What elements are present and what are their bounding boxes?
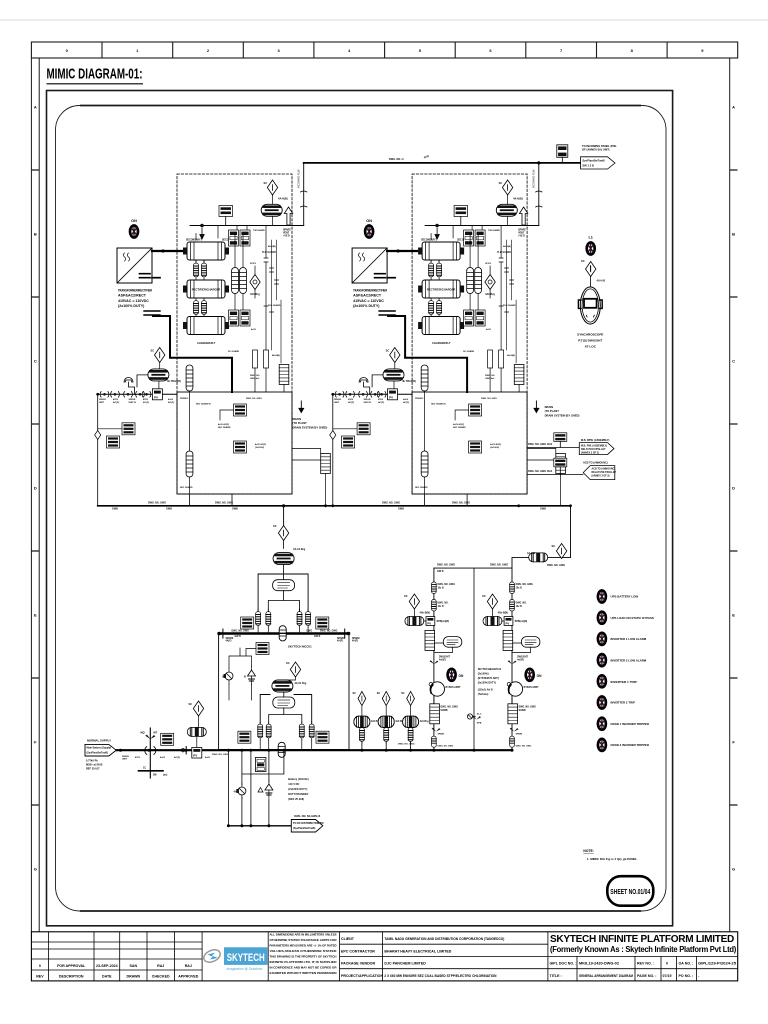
left band row ticks bbox=[31, 170, 39, 805]
right margin line bbox=[729, 58, 731, 932]
wire: riser to plant bus bbox=[303, 163, 305, 226]
svg-text:M.B. RPW. (ASSEMBLY): M.B. RPW. (ASSEMBLY) bbox=[581, 439, 610, 442]
bus1 left end cap bbox=[218, 629, 223, 638]
hatch box ups1 c bbox=[430, 704, 440, 724]
capacitor column chain1 b bbox=[266, 609, 271, 628]
earth bar bbox=[139, 770, 164, 772]
lamp ann1 bbox=[598, 591, 606, 603]
wire: 415V incomer top bus bbox=[304, 162, 581, 164]
capacitor pair dcf bbox=[360, 725, 365, 744]
svg-text:SW 1 2 B: SW 1 2 B bbox=[582, 163, 594, 167]
svg-text:SPB: SPB bbox=[477, 723, 482, 725]
svg-text:SPB(xx)(N): SPB(xx)(N) bbox=[437, 620, 450, 623]
svg-text:ALL DIMENSIONS ARE IN MILLIMET: ALL DIMENSIONS ARE IN MILLIMETERS UNLESS bbox=[270, 933, 337, 937]
label: inverter ups1 bbox=[446, 686, 462, 689]
suppressor capsule chain1 bbox=[273, 553, 294, 565]
svg-text:ASP&AC2/RECT: ASP&AC2/RECT bbox=[118, 294, 147, 298]
tie valve mark bbox=[472, 716, 481, 720]
wire: battery sub risers bbox=[228, 750, 284, 826]
wire: alarm line 1 bbox=[527, 446, 583, 448]
svg-text:OF (ANNEX-3A) UNIT;: OF (ANNEX-3A) UNIT; bbox=[582, 148, 610, 152]
breaker arc marks bbox=[145, 747, 156, 755]
node dots collector bbox=[227, 824, 271, 827]
svg-text:RAJ: RAJ bbox=[157, 964, 164, 968]
node dot top bus junction bbox=[537, 161, 540, 164]
suppressor capsule battery bbox=[187, 727, 206, 736]
svg-text:SWGR: SWGR bbox=[122, 756, 129, 758]
label: battery feeder micro bbox=[122, 754, 229, 761]
dc feeder group 1 bbox=[353, 691, 381, 750]
svg-text:DWG/SHT: DWG/SHT bbox=[439, 657, 450, 659]
rectifier/charger unit 1 bbox=[95, 163, 331, 506]
svg-text:(SysPlantSwTswB): (SysPlantSwTswB) bbox=[293, 827, 315, 830]
capacitor column chain2 c bbox=[299, 722, 304, 741]
wire: dcf capsule stubs bbox=[361, 706, 363, 728]
svg-text:SEC GUARD N: SEC GUARD N bbox=[196, 403, 211, 406]
wire: DC output thick L bbox=[144, 311, 160, 315]
svg-text:(110x1) Ah B: (110x1) Ah B bbox=[478, 689, 493, 692]
notes text block bbox=[270, 933, 338, 976]
valve tick ups1 low bbox=[432, 728, 441, 732]
label: ups1 micro bbox=[438, 734, 454, 748]
svg-text:DUTY/STANDBY: DUTY/STANDBY bbox=[288, 792, 308, 796]
narrow box N1 bbox=[253, 350, 258, 368]
svg-text:PV: PV bbox=[427, 621, 431, 625]
svg-text:NOTE:: NOTE: bbox=[583, 849, 594, 853]
svg-text:TLM GUARD: TLM GUARD bbox=[262, 251, 276, 254]
terminal stack box row A bbox=[229, 230, 239, 246]
svg-text:AC(F): AC(F) bbox=[143, 401, 149, 404]
svg-text:DRAIN SYSTEM (BY SHED): DRAIN SYSTEM (BY SHED) bbox=[545, 413, 580, 417]
tie breaker circle bbox=[467, 714, 475, 719]
svg-text:E: E bbox=[34, 612, 37, 617]
svg-text:TAMIL NADU GENERATION AND DIST: TAMIL NADU GENERATION AND DISTRIBUTION C… bbox=[384, 937, 505, 941]
svg-text:NCDB 1 INCOMER TRIPPED: NCDB 1 INCOMER TRIPPED bbox=[611, 722, 650, 726]
svg-text:B: B bbox=[34, 231, 37, 236]
svg-text:SWGR: SWGR bbox=[99, 399, 106, 401]
svg-text:C: C bbox=[732, 358, 735, 363]
wire: capsule connect bbox=[189, 391, 191, 494]
wire: diamond to suppressor bbox=[283, 541, 285, 549]
isolator valve IV2 bbox=[111, 392, 120, 398]
down triangle tap bbox=[200, 224, 204, 239]
dashed enclosure rectifier cubicle bbox=[177, 174, 292, 494]
wire: tie riser mid bbox=[473, 568, 475, 750]
svg-text:07/19: 07/19 bbox=[663, 974, 672, 978]
label: earth bbox=[143, 767, 167, 777]
svg-text:INVERTER 2 LOW ALARM: INVERTER 2 LOW ALARM bbox=[611, 658, 647, 662]
terminal stack above bus bbox=[557, 145, 568, 163]
svg-text:B: B bbox=[732, 231, 735, 236]
svg-text:415V: 415V bbox=[143, 398, 149, 401]
svg-text:DATE: DATE bbox=[102, 975, 112, 979]
svg-text:(TO PLANT: (TO PLANT bbox=[545, 409, 560, 413]
spare diamond small bbox=[95, 431, 101, 440]
wire: hatch stub bbox=[433, 696, 435, 704]
svg-text:SC: SC bbox=[189, 702, 193, 706]
label: battery fuse warn bbox=[258, 788, 263, 793]
left margin band bbox=[31, 58, 39, 932]
svg-text:SC: SC bbox=[353, 692, 357, 695]
svg-text:FOR APPROVAL: FOR APPROVAL bbox=[57, 964, 86, 968]
svg-text:10x B: 10x B bbox=[438, 587, 444, 589]
wire: alarm line 2 bbox=[527, 474, 583, 476]
svg-text:GWB: GWB bbox=[398, 508, 404, 511]
svg-text:MQ: MQ bbox=[141, 732, 145, 735]
svg-text:AT LOC: AT LOC bbox=[585, 345, 597, 349]
PV box ups1 bbox=[426, 617, 435, 626]
svg-text:(xx): (xx) bbox=[163, 774, 167, 777]
instrument diamond battery bbox=[193, 701, 203, 716]
wire: inner fanout chain2 bbox=[269, 692, 302, 724]
svg-text:DWG. NO. GWG: DWG. NO. GWG bbox=[452, 501, 470, 504]
svg-text:P.T(S) DWG/SHT: P.T(S) DWG/SHT bbox=[578, 339, 602, 343]
label: bus1 ends bbox=[226, 630, 361, 642]
svg-text:PAGE NO. :: PAGE NO. : bbox=[637, 974, 657, 978]
svg-text:DWG. NO. GWG: DWG. NO. GWG bbox=[212, 754, 229, 756]
svg-text:DWG. NO. SK-GWG-B: DWG. NO. SK-GWG-B bbox=[294, 815, 320, 818]
svg-text:1C: 1C bbox=[143, 767, 146, 770]
dc distribution board box bbox=[219, 634, 349, 750]
svg-text:SC: SC bbox=[286, 661, 290, 665]
isolator valve IV3 bbox=[124, 392, 133, 398]
svg-text:ON: ON bbox=[459, 674, 464, 678]
isolator valve IV1 bbox=[100, 392, 109, 398]
lamp ann3 bbox=[598, 633, 606, 645]
label box board bbox=[256, 643, 269, 655]
page top edge line bbox=[0, 19, 768, 21]
svg-text:BHARAT HEAVY ELECTRICAL LIMIT: BHARAT HEAVY ELECTRICAL LIMITED bbox=[384, 949, 451, 953]
bus tie capsule on bus1 bbox=[279, 626, 286, 641]
lower terminal cubicle box bbox=[177, 392, 292, 494]
feeder breaker box PV bbox=[152, 389, 162, 400]
svg-text:Imagination @ Solutions: Imagination @ Solutions bbox=[227, 967, 263, 971]
svg-text:2 X 660 MW ENNORE SEZ COAL BAS: 2 X 660 MW ENNORE SEZ COAL BASED STPP/EL… bbox=[384, 974, 496, 978]
svg-text:E: E bbox=[732, 612, 735, 617]
label box chain1 left bbox=[241, 617, 254, 629]
svg-text:SAN: SAN bbox=[130, 964, 138, 968]
svg-text:DWG. NO. GWG: DWG. NO. GWG bbox=[547, 564, 565, 567]
svg-text:SKYTECH: SKYTECH bbox=[227, 952, 265, 964]
svg-text:SYNCHROSCOPE: SYNCHROSCOPE bbox=[577, 333, 603, 337]
svg-text:THIS DRAWING IS THE PROPERTY O: THIS DRAWING IS THE PROPERTY OF SKYTECH bbox=[270, 955, 338, 959]
client section grid bbox=[340, 932, 548, 981]
wire: transformer AC feed bbox=[152, 250, 182, 252]
svg-text:OA NO. :: OA NO. : bbox=[679, 962, 694, 966]
unit micro labels b bbox=[180, 398, 266, 489]
svg-text:0: 0 bbox=[39, 964, 41, 968]
wire: diamond stub bbox=[254, 266, 256, 298]
svg-text:PARAMETERS MEASURED ARE +/- 1%: PARAMETERS MEASURED ARE +/- 1% OF RATED bbox=[270, 944, 338, 948]
svg-text:SHWB: SHWB bbox=[441, 710, 448, 712]
svg-text:A: A bbox=[732, 104, 735, 109]
suppressor capsule SC2 bbox=[148, 369, 169, 381]
wire: dcf riser bbox=[361, 742, 363, 750]
svg-text:DRAIN SYSTEM (BY SHED): DRAIN SYSTEM (BY SHED) bbox=[293, 425, 328, 429]
lamp ann7 bbox=[598, 718, 606, 730]
valve tick ups1 bbox=[430, 660, 439, 664]
wire: fuse risers bbox=[229, 648, 252, 700]
svg-text:DWG. NO. GWG: DWG. NO. GWG bbox=[382, 501, 400, 504]
svg-text:IN CONFIDENCE AND MAY NOT BE C: IN CONFIDENCE AND MAY NOT BE COPIED OR bbox=[270, 966, 338, 970]
svg-text:DWG. NO. GWG: DWG. NO. GWG bbox=[320, 630, 338, 632]
label: ups1 lower dwg bbox=[441, 707, 459, 712]
banner: annunciation 1 bbox=[579, 443, 614, 455]
isolator valve IV5 bbox=[142, 392, 151, 398]
svg-text:SC: SC bbox=[581, 259, 585, 263]
svg-text:RECTIFIER/CHARGER: RECTIFIER/CHARGER bbox=[192, 288, 221, 292]
wire: ups1 riser bbox=[433, 568, 435, 750]
label: dc bus mid bbox=[112, 501, 546, 510]
wire: h2 stub bbox=[292, 449, 326, 506]
annunciator lamp column bbox=[598, 591, 654, 751]
fuse triangle battery bbox=[265, 780, 273, 798]
label box LB3 bbox=[122, 423, 135, 435]
label: dc bus right bbox=[382, 501, 404, 510]
rectifier stack vessel V1 bbox=[183, 242, 229, 260]
svg-text:PO NO. :: PO NO. : bbox=[679, 974, 694, 978]
label box battery feeder bbox=[161, 733, 174, 745]
svg-text:DESCRIPTION: DESCRIPTION bbox=[59, 975, 84, 979]
svg-text:SC: SC bbox=[404, 594, 408, 598]
breaker flags bbox=[145, 735, 155, 739]
svg-text:4A-H B: 4A-H B bbox=[597, 279, 606, 283]
revision table h-lines bbox=[31, 942, 202, 970]
svg-text:(Formerly Known As : Skytech I: (Formerly Known As : Skytech Infinite Pl… bbox=[550, 944, 736, 954]
svg-text:SECONDARY1: SECONDARY1 bbox=[186, 239, 203, 242]
svg-text:4x0(F): 4x0(F) bbox=[439, 659, 446, 662]
svg-text:4A(F): 4A(F) bbox=[352, 640, 358, 643]
lamp ann5 bbox=[598, 675, 606, 687]
svg-text:DWG. NO. GWG: DWG. NO. GWG bbox=[438, 584, 456, 586]
converter stadium ups1 bbox=[443, 637, 462, 648]
svg-text:INVERTER 2 TRIP: INVERTER 2 TRIP bbox=[611, 701, 635, 705]
svg-text:(ANNEX 3 OF 3): (ANNEX 3 OF 3) bbox=[592, 474, 610, 477]
svg-text:TO INCOMING PANEL (PNL: TO INCOMING PANEL (PNL bbox=[582, 144, 617, 148]
svg-text:PV: PV bbox=[154, 395, 158, 399]
battery breaker box PV bbox=[192, 748, 202, 759]
label: dc bus left bbox=[148, 501, 172, 510]
svg-text:DWG. NO. GWG: DWG. NO. GWG bbox=[490, 564, 508, 567]
revision table v-lines bbox=[49, 932, 269, 981]
suppressor capsule dcf bbox=[354, 716, 370, 727]
svg-text:A: A bbox=[34, 104, 37, 109]
svg-text:SC: SC bbox=[273, 524, 277, 528]
svg-text:(ANNEX 3 OF 3): (ANNEX 3 OF 3) bbox=[581, 451, 599, 454]
svg-text:AC(F): AC(F) bbox=[113, 401, 119, 404]
riser tick marks bbox=[264, 258, 279, 312]
svg-text:PRI/SEC: PRI/SEC bbox=[180, 398, 189, 400]
svg-text:4b TRAL(B): 4b TRAL(B) bbox=[167, 380, 181, 383]
terminal stack alarm1 bbox=[554, 433, 567, 448]
svg-text:DWG. NO. GWG: DWG. NO. GWG bbox=[148, 501, 166, 504]
svg-text:UNIT: UNIT bbox=[99, 402, 105, 404]
instrument diamond ups1 bbox=[409, 594, 419, 609]
svg-text:(SysPlantSwTswB): (SysPlantSwTswB) bbox=[87, 751, 109, 754]
label: tie bbox=[477, 713, 482, 725]
svg-text:PV: PV bbox=[193, 753, 197, 757]
label box LB4 bbox=[107, 436, 120, 448]
svg-text:4A(F): 4A(F) bbox=[337, 640, 343, 643]
inner drawing border rect bbox=[47, 91, 673, 926]
capacitor bank C3 bbox=[194, 298, 199, 317]
svg-text:BYPAS AFBT: BYPAS AFBT bbox=[446, 686, 462, 689]
wire: d2 stub bbox=[158, 363, 161, 389]
svg-text:4A-H B: 4A-H B bbox=[527, 552, 535, 555]
svg-text:TRANSFORMER/RECTIFIER: TRANSFORMER/RECTIFIER bbox=[118, 289, 152, 293]
svg-text:MSB +x2 BUS: MSB +x2 BUS bbox=[86, 764, 103, 767]
svg-text:1. MIMIC DIA Fig is 4 Qty gb P: 1. MIMIC DIA Fig is 4 Qty gb PANEL bbox=[587, 857, 638, 861]
svg-text:ON: ON bbox=[131, 219, 137, 223]
svg-text:DWG. NO.: DWG. NO. bbox=[438, 603, 449, 605]
svg-text:(2x100%): (2x100%) bbox=[255, 447, 264, 449]
wire: caps to bus1 bbox=[258, 628, 308, 634]
node dot on feed bbox=[161, 249, 164, 252]
wire: capsule stubs bbox=[235, 234, 243, 310]
lamp ann6 bbox=[598, 697, 606, 709]
svg-text:GW B: GW B bbox=[235, 636, 242, 638]
surge suppressor capsule SC1 bbox=[261, 204, 282, 216]
svg-text:CLIENT: CLIENT bbox=[341, 937, 355, 941]
capacitor bank C4 bbox=[202, 298, 207, 317]
wire: box to bus drops bbox=[190, 494, 233, 506]
svg-text:(2x100% DUTY): (2x100% DUTY) bbox=[118, 304, 145, 308]
capacitor column chain2 a bbox=[258, 722, 263, 741]
svg-text:APPROVED: APPROVED bbox=[178, 975, 199, 979]
svg-text:DWG. NO. GWG 10x0: DWG. NO. GWG 10x0 bbox=[528, 470, 553, 473]
svg-text:GWB: GWB bbox=[166, 508, 172, 511]
svg-text:SPARE: SPARE bbox=[283, 229, 291, 232]
wire: main dc bus bbox=[98, 505, 571, 507]
svg-text:GWB: GWB bbox=[232, 508, 238, 511]
note text bbox=[583, 849, 637, 861]
svg-text:(TO PLANT: (TO PLANT bbox=[293, 421, 308, 425]
title block outer bbox=[31, 932, 737, 981]
svg-text:0.77kV Ph: 0.77kV Ph bbox=[86, 760, 98, 763]
tall hatch box H1 bbox=[279, 365, 289, 385]
svg-text:Battery (110Vdc): Battery (110Vdc) bbox=[288, 777, 308, 781]
svg-text:T/M GUARD: T/M GUARD bbox=[253, 229, 265, 232]
bus1 right end cap bbox=[345, 629, 350, 638]
wire: battery diamond stub bbox=[197, 716, 199, 748]
vent arrow bbox=[284, 207, 292, 225]
transformer T1 label bbox=[118, 289, 152, 309]
ups branch 2 (duplicate) bbox=[482, 568, 542, 750]
wire: ups feeder riser right bbox=[434, 506, 571, 568]
top ruler band bbox=[31, 42, 737, 58]
svg-text:SC GUARD: SC GUARD bbox=[228, 350, 240, 353]
svg-text:GIPL/129-P/2024-25: GIPL/129-P/2024-25 bbox=[698, 962, 736, 966]
wire: ups1 stadium link bbox=[435, 643, 453, 653]
wire: cubicle top bus bbox=[190, 225, 304, 227]
converter stadium chain2 bbox=[273, 697, 295, 708]
hatch box ups1 a bbox=[425, 630, 435, 650]
svg-text:SEC GUARD: SEC GUARD bbox=[218, 426, 231, 429]
instrument diamond D2 bbox=[155, 348, 165, 363]
svg-text:OTHERWISE STATED.TOLERANCE LIM: OTHERWISE STATED.TOLERANCE LIMITS FOR bbox=[270, 938, 338, 942]
filter capsule column F2 bbox=[240, 268, 247, 294]
isolator cylinder ups1 top bbox=[432, 582, 437, 594]
lamp ann4 bbox=[598, 654, 606, 666]
banner: to dc distribution bbox=[291, 820, 323, 833]
svg-text:SysPlantSwTswB: SysPlantSwTswB bbox=[582, 159, 604, 163]
svg-text:415VAC = 110VDC: 415VAC = 110VDC bbox=[118, 299, 149, 303]
label: ups feed bbox=[527, 552, 565, 567]
dc feeder group 3 (duplicate) bbox=[401, 691, 429, 750]
sheet number oval bbox=[607, 876, 653, 906]
svg-text:23-SEP-2024: 23-SEP-2024 bbox=[96, 964, 118, 968]
svg-text:4A-H(B): 4A-H(B) bbox=[272, 354, 280, 357]
svg-text:DWG. NO. GWG 10x0: DWG. NO. GWG 10x0 bbox=[528, 443, 553, 446]
label: ups1 mid cyl bbox=[438, 603, 449, 608]
skytech logo bbox=[202, 947, 268, 971]
sheet title bbox=[47, 67, 144, 84]
wire: feeder left riser bbox=[97, 394, 99, 506]
svg-text:SPB/B: SPB/B bbox=[438, 734, 445, 736]
wire: diamond to capsule bbox=[272, 195, 274, 226]
svg-text:NCDB 2 INCOMER TRIPPED: NCDB 2 INCOMER TRIPPED bbox=[611, 743, 650, 747]
svg-text:UPS BATTERY LOW: UPS BATTERY LOW bbox=[611, 595, 639, 599]
svg-text:INFINITE PLATFORM LTD. IT IS S: INFINITE PLATFORM LTD. IT IS SUPPLIED bbox=[270, 960, 338, 964]
svg-text:4x0V: 4x0V bbox=[205, 756, 211, 759]
capacitor bank C1 bbox=[194, 261, 199, 280]
label: ups1 stadium bbox=[439, 657, 450, 662]
rounded border thicker straight segments bbox=[80, 106, 641, 912]
svg-text:REV: REV bbox=[36, 975, 44, 979]
svg-text:4A-H(B): 4A-H(B) bbox=[268, 245, 276, 248]
label: battery bank text bbox=[288, 777, 308, 801]
svg-text:4A-01 Brg: 4A-01 Brg bbox=[293, 547, 306, 551]
svg-text:AC(F): AC(F) bbox=[174, 756, 180, 759]
svg-text:INVERTER 1 LOW ALARM: INVERTER 1 LOW ALARM bbox=[611, 637, 647, 641]
svg-text:(2x100% DUTY): (2x100% DUTY) bbox=[288, 787, 307, 791]
label box chain2 left bbox=[238, 731, 251, 743]
svg-text:DWG: DWG bbox=[307, 630, 313, 632]
suppressor capsule ups feed bbox=[529, 553, 548, 562]
wire: ups1 diamond stub bbox=[413, 609, 415, 617]
filter capsule column F1 bbox=[232, 268, 239, 294]
dc feeder group 2 (duplicate) bbox=[377, 691, 405, 750]
svg-text:415V: 415V bbox=[135, 756, 141, 759]
svg-text:SKYTECH&GGPL01: SKYTECH&GGPL01 bbox=[478, 668, 502, 671]
disconnect marks on riser bbox=[301, 191, 307, 207]
label: vent bbox=[283, 229, 291, 238]
svg-text:4x0V: 4x0V bbox=[168, 398, 174, 401]
svg-text:C: C bbox=[34, 358, 37, 363]
capacitor column chain1 c bbox=[297, 609, 302, 628]
svg-text:TITLE :: TITLE : bbox=[550, 974, 562, 978]
svg-text:NORMAL SUPPLY: NORMAL SUPPLY bbox=[87, 739, 111, 743]
lamp ann8 bbox=[598, 739, 606, 751]
svg-text:(2x100% DUTY): (2x100% DUTY) bbox=[478, 682, 497, 685]
suppressor capsule chain2 bbox=[272, 680, 293, 692]
capacitor bank C2 bbox=[202, 261, 207, 280]
svg-text:4Ah-B(N): 4Ah-B(N) bbox=[420, 612, 431, 615]
label: ups battery text block bbox=[478, 668, 502, 696]
fuse circle battery bbox=[236, 783, 246, 799]
svg-text:EXHIBITED WITHOUT WRITTEN PERM: EXHIBITED WITHOUT WRITTEN PERMISSION bbox=[270, 971, 338, 975]
terminal stack alarm2 bbox=[554, 458, 567, 474]
svg-text:SC: SC bbox=[151, 349, 155, 353]
rounded drawing sheet border bbox=[56, 106, 667, 912]
svg-text:DWG. NO. GWG: DWG. NO. GWG bbox=[438, 746, 454, 748]
capacitor column chain1 a bbox=[256, 609, 261, 628]
svg-text:DWG. NO. GWG: DWG. NO. GWG bbox=[246, 398, 262, 400]
svg-text:DWG. NO. GWG: DWG. NO. GWG bbox=[232, 630, 250, 632]
drain funnel bbox=[124, 378, 135, 395]
incoming feeder line bbox=[98, 393, 177, 395]
wire: chain2 connects bbox=[282, 677, 295, 680]
